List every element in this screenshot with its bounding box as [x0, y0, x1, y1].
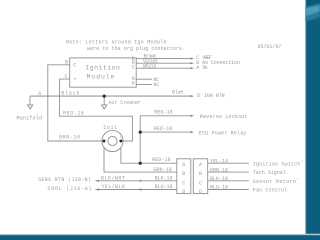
wire Violet: [136, 62, 190, 64]
svg-text:A: A: [38, 91, 41, 97]
svg-text:B: B: [65, 60, 68, 66]
svg-text:Blue: Blue: [172, 90, 183, 96]
svg-text:Module: Module: [87, 74, 115, 81]
arrow mid BLK wire: [138, 180, 142, 182]
wire YEL/BLK BLU-18 row D: [95, 189, 176, 191]
wire BLK-18 sensor return: [208, 180, 249, 182]
arrow mid YEL wire: [138, 188, 142, 190]
wire pin N NC: [136, 78, 152, 80]
arrow to B No Connection: [191, 62, 195, 64]
svg-text:BRN-16: BRN-16: [59, 134, 80, 140]
svg-text:Fan Control: Fan Control: [253, 188, 287, 194]
svg-text:5A: 5A: [202, 65, 207, 71]
svg-text:Ignition: Ignition: [85, 65, 120, 72]
svg-text:Air Creaner: Air Creaner: [109, 100, 141, 106]
svg-text:C: C: [199, 180, 202, 186]
svg-text:C: C: [65, 74, 68, 80]
svg-text:Tach Signal: Tach Signal: [253, 170, 286, 176]
svg-text:No Connection: No Connection: [202, 60, 240, 66]
wire coil right terminal down to RED-18 row A: [121, 148, 177, 163]
svg-text:B: B: [199, 171, 202, 177]
wire pin B to BRN-16 to coil left terminal: [48, 65, 103, 141]
wire GRN-18 tach signal: [208, 171, 249, 173]
svg-text:GRN-18: GRN-18: [210, 167, 228, 173]
svg-text:SENS RTN (J10-B): SENS RTN (J10-B): [38, 177, 91, 183]
svg-text:C: C: [182, 180, 185, 186]
svg-text:Ignition Switch: Ignition Switch: [253, 162, 300, 168]
svg-text:C: C: [73, 63, 76, 69]
svg-text:D: D: [199, 189, 202, 195]
wire BLK/WHT BLK-18 row C: [95, 180, 176, 182]
svg-text:B: B: [182, 171, 185, 177]
arrow to Reverse Lockout: [191, 115, 195, 117]
svg-text:BLU-18: BLU-18: [155, 184, 173, 190]
svg-text:D: D: [182, 189, 185, 195]
coil right terminal: [119, 140, 122, 143]
svg-text:IGN RTN: IGN RTN: [204, 93, 225, 99]
svg-text:BLK-18: BLK-18: [210, 176, 228, 182]
svg-text:Note: Letters around Ign Modul: Note: Letters around Ign Module: [66, 40, 167, 46]
module U1 Ignition Module box: [70, 58, 137, 87]
wire YEL-14 ignition switch: [208, 162, 249, 164]
arrow to SENS RTN: [95, 180, 99, 182]
arrow to COOL: [95, 188, 99, 190]
svg-text:-: -: [100, 136, 102, 140]
svg-text:C: C: [132, 65, 135, 71]
svg-text:RED-18: RED-18: [152, 157, 171, 163]
svg-text:White: White: [143, 64, 157, 70]
arrow to C VREF: [191, 57, 195, 59]
wire coil left terminal down to GRN-18 row B: [104, 148, 177, 173]
wire Brown: [136, 58, 190, 60]
svg-text:GRN-18: GRN-18: [153, 167, 172, 173]
ground air cleaner triangle: [102, 105, 107, 109]
svg-text:A: A: [199, 162, 202, 168]
svg-text:Manifold: Manifold: [17, 115, 43, 121]
coil outer circle: [102, 130, 123, 151]
wire vertical bus: [139, 116, 141, 163]
wire BLU-18 fan control: [208, 189, 249, 191]
arrow to D IGN RTN: [191, 95, 195, 97]
svg-text:Black: Black: [61, 91, 79, 97]
svg-text:YEL-14: YEL-14: [210, 158, 228, 164]
svg-text:Reverse Lockout: Reverse Lockout: [200, 114, 248, 120]
ground manifold triangle: [28, 105, 33, 109]
svg-text:RED-18: RED-18: [154, 126, 173, 132]
svg-text:D: D: [197, 93, 200, 99]
wire RED-18 ECU power relay: [140, 131, 190, 133]
junction air cleaner: [103, 95, 106, 98]
svg-text:+: +: [74, 77, 77, 83]
ground air cleaner stem: [103, 96, 105, 105]
svg-text:': ': [297, 177, 300, 183]
svg-text:BLK-18: BLK-18: [155, 175, 173, 181]
svg-text:BLK/WHT: BLK/WHT: [101, 175, 125, 181]
svg-text:P: P: [132, 81, 135, 87]
junction bus ECU: [139, 131, 142, 134]
svg-text:A: A: [182, 162, 185, 168]
svg-text:Sensor Return: Sensor Return: [253, 179, 296, 185]
connector J2 right box: [193, 159, 207, 194]
svg-text:': ': [301, 160, 304, 166]
wire Black/Blue IGN RTN: [30, 95, 191, 97]
svg-text:COOL (J10-A): COOL (J10-A): [48, 186, 92, 192]
svg-text:A: A: [196, 65, 199, 71]
ground manifold stem: [29, 96, 31, 105]
svg-text:were to the org plug connector: were to the org plug connectors.: [87, 46, 185, 52]
wire pin C to RED-16 to coil right terminal: [60, 79, 133, 141]
junction bus RED-18: [139, 162, 142, 165]
coil inner circle: [108, 136, 117, 145]
wire RED-18 reverse lockout: [140, 115, 190, 117]
svg-text:05/01/97: 05/01/97: [258, 44, 282, 50]
svg-text:NC: NC: [153, 82, 159, 88]
svg-text:Coil: Coil: [104, 125, 118, 131]
wire White: [136, 67, 190, 69]
wire pin P NC: [136, 84, 152, 86]
connector J1 left box: [177, 159, 191, 194]
coil left terminal: [103, 140, 106, 143]
svg-text:ECU Power Relay: ECU Power Relay: [199, 130, 247, 136]
svg-text:YEL/BLK: YEL/BLK: [102, 184, 126, 190]
svg-text:RED-16: RED-16: [63, 110, 84, 116]
svg-text:BLU-18: BLU-18: [210, 185, 228, 191]
arrow to ECU Power Relay: [191, 131, 195, 133]
svg-text:RED-18: RED-18: [154, 110, 173, 116]
arrow to A 5A: [191, 67, 195, 69]
